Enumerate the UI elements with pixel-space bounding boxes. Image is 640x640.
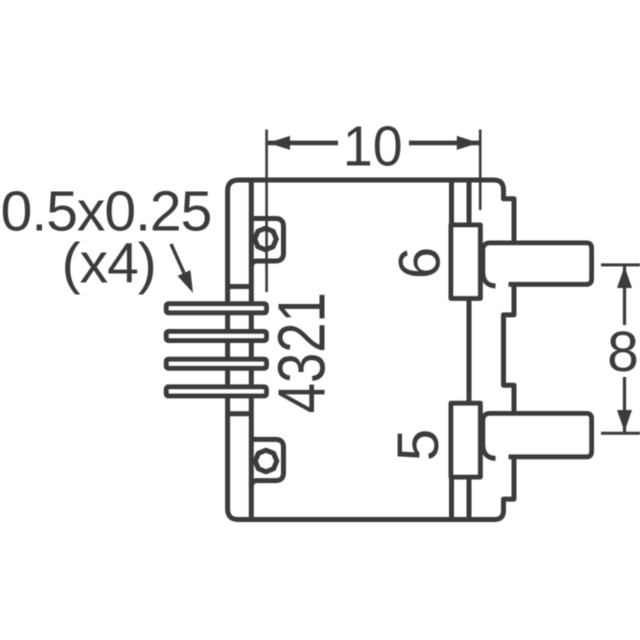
wire: right flange line 2 upper bbox=[467, 180, 472, 225]
terminal pin 6 bbox=[483, 243, 592, 286]
wire: right flange line 1 lower bbox=[449, 477, 454, 520]
wire: extension line right of 10 dim bbox=[479, 130, 482, 211]
arrowhead: 10 dim right bbox=[457, 136, 479, 150]
hole in top ear bbox=[255, 228, 277, 250]
svg-text:5: 5 bbox=[386, 429, 451, 461]
svg-text:10: 10 bbox=[343, 114, 403, 178]
svg-text:8: 8 bbox=[607, 320, 639, 384]
lead 3 bbox=[166, 359, 266, 368]
wire: 8 dim top tick bbox=[601, 263, 640, 266]
body outline bbox=[228, 180, 514, 520]
pad of pin 6 bbox=[451, 225, 480, 298]
wire: left flange inner line bbox=[249, 180, 254, 520]
hole in bottom ear bbox=[255, 450, 277, 472]
wire: extension line left of 10 dim bbox=[265, 130, 268, 293]
wire: right flange line 2 lower bbox=[467, 477, 472, 520]
mounting ear top bbox=[251, 219, 283, 268]
svg-text:6: 6 bbox=[388, 247, 453, 279]
lead 2 bbox=[166, 332, 266, 341]
wire: 8 dim line upper segment bbox=[623, 266, 626, 325]
arrowhead: 10 dim left bbox=[268, 136, 290, 150]
wire: dimension line 10 left segment bbox=[268, 141, 338, 146]
arrowhead: leader bbox=[178, 270, 193, 293]
wire: leader line to leads bbox=[171, 244, 184, 273]
wire: right flange line 1 upper bbox=[449, 180, 454, 225]
svg-text:(x4): (x4) bbox=[62, 232, 156, 296]
lead 1 bbox=[166, 304, 266, 313]
wire: right flange line 2 middle bbox=[467, 298, 472, 403]
wire: rung above leads bbox=[228, 284, 252, 289]
arrowhead: 8 dim up bbox=[617, 267, 632, 289]
wire: dimension line 10 right segment bbox=[409, 141, 479, 146]
wire: 8 dim bottom tick bbox=[601, 432, 640, 435]
mounting ear bottom bbox=[251, 439, 283, 486]
svg-text:4321: 4321 bbox=[264, 292, 338, 413]
terminal pin 5 bbox=[483, 414, 592, 459]
pad of pin 5 bbox=[451, 403, 480, 477]
lead 4 bbox=[166, 387, 266, 396]
wire: 8 dim line lower segment bbox=[623, 377, 626, 432]
arrowhead: 8 dim down bbox=[617, 410, 632, 432]
wire: rung below leads bbox=[228, 411, 252, 416]
